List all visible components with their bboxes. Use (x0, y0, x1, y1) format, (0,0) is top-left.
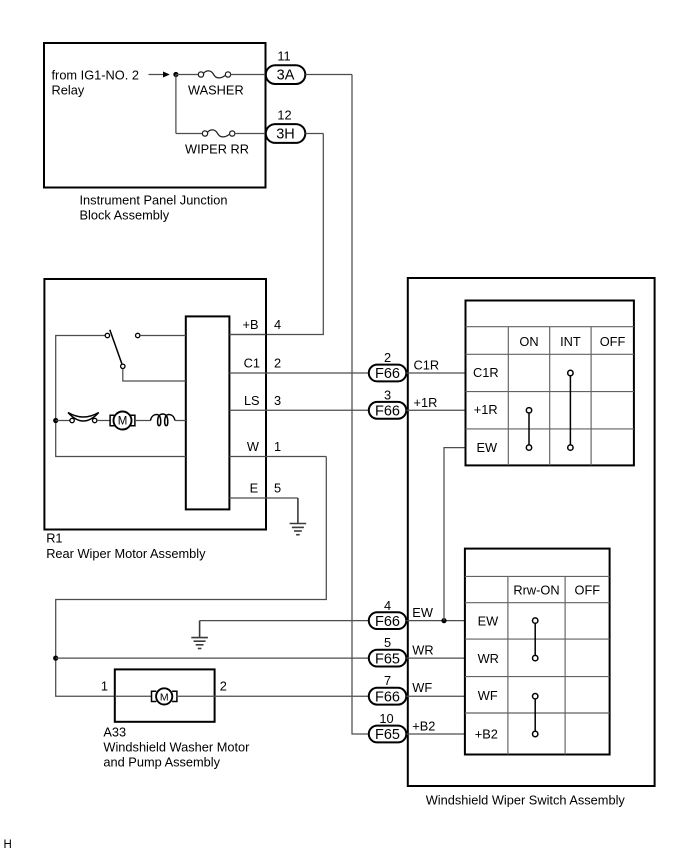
wire: F66-7 to washer table WF row (406, 695, 465, 697)
svg-text:Windshield Wiper Switch Assemb: Windshield Wiper Switch Assembly (426, 793, 626, 808)
wire: W pin return path down-left-down to washer motor (56, 457, 327, 697)
wire: 3H to vertical bus V2 (305, 133, 323, 135)
svg-text:from IG1-NO. 2: from IG1-NO. 2 (52, 68, 139, 83)
svg-text:1: 1 (101, 679, 108, 694)
svg-text:2: 2 (274, 356, 281, 371)
svg-text:F65: F65 (375, 651, 400, 667)
table 1 frame (466, 301, 634, 466)
svg-text:LS: LS (244, 393, 260, 408)
svg-text:EW: EW (412, 605, 434, 620)
svg-text:INT: INT (560, 334, 581, 349)
pin E wire (229, 497, 298, 499)
wire: rail to circuit breaker (56, 420, 70, 422)
svg-text:+1R: +1R (414, 395, 438, 410)
svg-text:EW: EW (478, 613, 500, 628)
park switch contact (fixed, right +B side) (136, 333, 140, 337)
wire: fuse WASHER to connector 3A (230, 74, 265, 76)
svg-text:F66: F66 (375, 404, 400, 420)
connector block (inner rectangle) (186, 316, 230, 509)
svg-text:C1: C1 (244, 356, 260, 371)
table 1 grid lines (466, 327, 634, 466)
wire: left rail inside motor box (56, 336, 186, 457)
wire: F66-4 to washer table EW row (406, 620, 465, 622)
svg-text:+B2: +B2 (475, 727, 498, 742)
svg-text:OFF: OFF (600, 334, 626, 349)
svg-text:F65: F65 (375, 727, 400, 743)
svg-text:+1R: +1R (474, 402, 498, 417)
svg-text:W: W (247, 439, 260, 454)
pin W wire (229, 456, 326, 458)
switch contact ON: +1R to EW (526, 408, 531, 451)
motor M2 (washer pump) (152, 688, 177, 704)
svg-text:10: 10 (379, 711, 393, 726)
wire: vertical bus V2 (3H down to +B of rear wiper motor) (229, 134, 323, 335)
wire: node to fuse WASHER (176, 74, 199, 76)
svg-text:WR: WR (478, 651, 499, 666)
wire: motor to armature coil (135, 420, 151, 422)
svg-text:7: 7 (384, 673, 391, 688)
junction node (W / WR split) (53, 656, 58, 661)
wire: node to connector F65 (WR) (56, 657, 369, 659)
table 2 frame (465, 549, 610, 755)
svg-text:Relay: Relay (52, 83, 85, 98)
svg-text:5: 5 (274, 481, 281, 496)
svg-text:E: E (250, 481, 259, 496)
junction block box (44, 43, 266, 188)
svg-text:WF: WF (478, 688, 498, 703)
arrow into junction block (149, 72, 170, 78)
svg-text:5: 5 (384, 635, 391, 650)
svg-text:3A: 3A (277, 68, 295, 84)
svg-text:C1R: C1R (414, 358, 440, 373)
svg-text:R1: R1 (46, 531, 62, 546)
ground (EW) (191, 621, 208, 649)
svg-text:11: 11 (277, 49, 290, 64)
connector 3A (266, 65, 306, 84)
wire: EW node up to wiper table EW row (444, 448, 466, 621)
svg-text:F66: F66 (375, 689, 400, 705)
svg-text:Block Assembly: Block Assembly (80, 208, 170, 223)
svg-text:Rrw-ON: Rrw-ON (513, 583, 559, 598)
svg-text:1: 1 (274, 439, 281, 454)
wire: breaker to motor brush (97, 420, 110, 422)
svg-text:WASHER: WASHER (188, 83, 244, 98)
svg-text:F66: F66 (375, 366, 400, 382)
svg-text:M: M (118, 416, 128, 428)
wire: F65-5 to washer table WR row (406, 657, 465, 659)
park switch contact (fixed, left) (105, 333, 109, 337)
switch contact Rrw-ON: EW to WR (533, 618, 538, 661)
svg-text:3: 3 (274, 393, 281, 408)
wire: F66-2 to wiper table C1R (406, 372, 465, 374)
junction node on left rail (motor row) (53, 418, 58, 423)
svg-text:WIPER RR: WIPER RR (185, 142, 249, 157)
wire: vertical bus V1 (3A to +B2 connector) (352, 75, 369, 735)
washer motor box (115, 669, 215, 721)
svg-text:2: 2 (384, 350, 391, 365)
svg-text:F66: F66 (375, 614, 400, 630)
ground (E pin) (290, 498, 307, 535)
svg-text:WR: WR (412, 643, 433, 658)
wire: vertical from node down to WIPER RR fuse row (175, 75, 177, 134)
switch assembly box (408, 278, 655, 786)
pin +B wire (229, 334, 266, 336)
pin LS wire to connector F66 (229, 409, 368, 411)
svg-text:Windshield Washer Motor: Windshield Washer Motor (103, 740, 250, 755)
wire: node to fuse WIPER RR (176, 133, 203, 135)
switch contact INT: C1R to EW (568, 370, 573, 450)
svg-text:and Pump Assembly: and Pump Assembly (103, 755, 220, 770)
svg-text:4: 4 (384, 598, 391, 613)
rear wiper motor box (44, 279, 266, 530)
svg-text:M: M (160, 691, 169, 703)
svg-text:EW: EW (477, 440, 499, 455)
fuse WIPER RR (202, 130, 235, 137)
svg-text:C1R: C1R (473, 365, 499, 380)
wire: F66-3 to wiper table +1R (406, 409, 465, 411)
svg-text:ON: ON (519, 334, 538, 349)
junction node (WASHER/WIPER RR feed) (173, 72, 178, 77)
svg-text:4: 4 (274, 317, 281, 332)
wire: F65-10 to washer table +B2 row (406, 733, 465, 735)
park switch blade (110, 330, 122, 364)
wire: switch pivot to connector block (123, 369, 186, 381)
circuit breaker (bimetal strip over contacts) (68, 413, 99, 423)
switch contact Rrw-ON: WF to +B2 (533, 694, 538, 737)
wire: pin1 to motor (115, 695, 151, 697)
wire: fuse WIPER RR to connector 3H (235, 133, 266, 135)
junction node EW (441, 618, 446, 623)
svg-text:OFF: OFF (575, 583, 601, 598)
connector 3H (266, 124, 306, 143)
svg-text:A33: A33 (103, 725, 126, 740)
svg-text:WF: WF (412, 680, 432, 695)
pin C1 wire to connector F66 (229, 372, 368, 374)
svg-text:3: 3 (384, 387, 391, 402)
park switch pivot contact (121, 364, 125, 368)
wire: motor to pin2 and on to connector F66 (WF) (177, 695, 369, 697)
wire: ground to connector F66 (EW) (200, 620, 369, 622)
fuse WASHER (198, 71, 230, 78)
svg-text:H: H (4, 839, 12, 851)
svg-text:+B: +B (242, 317, 258, 332)
svg-text:Instrument Panel Junction: Instrument Panel Junction (80, 193, 228, 208)
wire: right contact to connector block (140, 335, 186, 337)
svg-text:2: 2 (220, 679, 227, 694)
armature coil (151, 414, 175, 426)
wire: coil to connector block (175, 420, 186, 422)
wire: 3A to vertical bus (305, 74, 352, 76)
table 2 grid lines (465, 576, 610, 754)
svg-text:12: 12 (277, 108, 291, 123)
svg-text:+B2: +B2 (412, 718, 435, 733)
svg-text:3H: 3H (276, 127, 295, 143)
svg-text:Rear Wiper Motor Assembly: Rear Wiper Motor Assembly (46, 546, 206, 561)
motor M1 (rear wiper) (110, 412, 135, 430)
